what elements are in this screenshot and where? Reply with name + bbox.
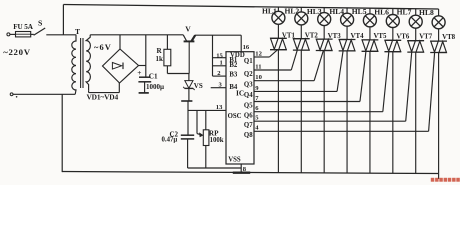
wire VT5 cathode drop [369,51,371,173]
wire secondary bottom [88,91,90,93]
wire HL3-to-VT3 [323,26,325,40]
wire bridge right corner feed [139,65,146,67]
pin 12 Q1 wire [254,56,269,58]
fuse FU [16,32,31,37]
transformer core [80,38,82,88]
svg-text:16: 16 [243,44,250,51]
thyristor VT1 [270,37,287,39]
wire VT1 cathode drop [277,50,279,173]
lamp HL3 [318,13,331,26]
thyristor VT6 [384,39,401,41]
wire topbus-to-HL1 [277,7,279,11]
svg-text:VT6: VT6 [396,33,410,40]
svg-text:VSS: VSS [228,156,241,163]
svg-text:S: S [38,19,42,28]
wire OSC line [188,109,226,111]
pin 4 Q8 wire [254,130,429,132]
transistor V [183,35,186,41]
wire HL4-to-VT4 [346,26,348,39]
terminal AC neutral [10,93,13,96]
svg-text:15: 15 [216,52,223,59]
svg-text:Q5: Q5 [244,102,253,109]
wire topbus-to-HL6 [392,8,394,14]
wire zener to C2 [187,101,189,135]
diode VD inside bridge [112,63,121,70]
svg-text:VT5: VT5 [373,33,387,40]
pin 15 B1 wire [213,57,227,59]
pin 11 Q2 wire [254,69,291,71]
wire Q8 gate diagonal [429,53,435,132]
pin 10 Q3 wire [254,80,314,82]
IC box [226,52,254,164]
zener bottom junction bar [181,100,192,102]
svg-text:Q1: Q1 [244,58,253,65]
lamp HL4 [341,13,354,26]
thyristor VT4 [339,39,356,41]
wire topbus-to-HL4 [346,8,348,13]
svg-text:FU 5A: FU 5A [13,23,34,31]
svg-text:HL5: HL5 [352,7,367,16]
wire HL5-to-VT5 [369,27,371,40]
transformer T primary winding [72,35,76,95]
svg-text:+: + [137,68,141,77]
svg-text:11: 11 [255,63,261,70]
ground bar [233,172,250,174]
svg-text:Q8: Q8 [244,132,253,139]
wire neutral horizontal [13,93,75,95]
svg-text:6: 6 [255,105,259,112]
capacitor C2 [181,134,194,136]
pin 9 Q4 wire [254,90,337,92]
wire terminal-to-fuse [10,33,16,35]
wire 6V node horizontal [90,34,183,36]
svg-text:OSC: OSC [228,113,242,120]
resistor R body [164,49,171,66]
svg-text:V: V [185,25,191,34]
wire Q7 gate diagonal [406,52,412,121]
lamp HL1 [272,11,285,24]
wire bridge bottom drop [118,83,120,93]
wire Q2 gate diagonal [291,50,297,70]
svg-text:100k: 100k [210,137,224,144]
wire Q1 gate diagonal [269,50,277,57]
wire C2 to ground line [187,139,189,168]
wire B-strap riser [212,35,214,76]
wire top bus (AC live to lamps) [63,5,438,10]
svg-text:12: 12 [255,50,262,57]
svg-text:VD1~VD4: VD1~VD4 [87,92,119,101]
wire VT2 cathode drop [300,50,302,173]
wire neutral drop to bottom bus [61,94,63,172]
thyristor VT8 [430,40,447,42]
wire topbus-to-HL3 [323,8,325,13]
svg-text:10: 10 [255,74,262,81]
wire HL6-to-VT6 [392,28,394,41]
wire Q3 gate diagonal [314,51,323,81]
thyristor VT3 [316,38,333,40]
wire VT3 cathode drop [323,51,325,173]
svg-text:B2: B2 [229,62,238,69]
wire ground tie [188,167,242,169]
svg-text:Q7: Q7 [244,122,253,129]
svg-text:B4: B4 [229,84,238,91]
wire VT6 cathode drop [392,52,394,174]
svg-text:9: 9 [255,85,259,92]
svg-text:~6V: ~6V [94,43,112,52]
wire topbus-to-HL2 [300,7,302,12]
lamp HL7 [409,15,422,28]
svg-text:~220V: ~220V [3,47,31,57]
wire VT8 cathode drop [438,53,440,180]
capacitor C1 lower lead and bar [144,82,146,93]
svg-text:T: T [75,27,80,36]
wire Q5 gate diagonal [360,51,366,101]
wire HL8-to-VT8 [438,29,440,41]
pin 2 B3 wire [213,75,227,77]
switch S blade [34,28,46,35]
svg-text:VT7: VT7 [419,34,433,41]
svg-text:5: 5 [255,115,259,122]
pin 7 Q5 wire [254,101,360,103]
lamp HL8 [432,16,445,29]
potentiometer RP leads [205,110,207,129]
wire Q6 gate diagonal [383,52,389,112]
transformer T secondary winding [86,35,90,91]
terminal AC live [7,33,10,36]
lamp HL5 [363,14,376,27]
svg-text:1: 1 [220,60,223,67]
lamp HL6 [386,15,399,28]
wire HL7-to-VT7 [415,28,417,41]
svg-text:0.47µ: 0.47µ [162,137,178,144]
wire VT4 cathode drop [346,51,348,173]
svg-text:HL7: HL7 [397,8,412,17]
wire Q4 gate diagonal [337,51,343,92]
svg-text:Q6: Q6 [244,113,253,120]
wire VT7 cathode drop [415,52,417,173]
svg-text:C1: C1 [149,72,158,80]
svg-text:4: 4 [255,125,259,132]
svg-text:Q3: Q3 [244,82,253,89]
pin 5 Q7 wire [254,120,406,122]
zener VS [188,74,190,81]
wire topbus-to-HL8 [438,9,440,16]
svg-text:HL8: HL8 [419,8,434,17]
svg-text:VS: VS [194,82,203,90]
svg-text:7: 7 [255,95,259,102]
svg-text:VT8: VT8 [442,34,456,41]
wire bridge apex riser [119,35,121,49]
switch S contact wire [31,33,34,35]
wire emitter to IC [195,34,241,36]
pin 8 VSS wire [240,164,242,173]
bridge rectifier VD1-VD4 diamond [103,49,139,83]
svg-text:Q2: Q2 [244,71,253,78]
svg-text:HL6: HL6 [374,7,389,16]
svg-text:R: R [157,47,163,55]
capacitor C1 plates [139,76,151,78]
resistor R leads [166,35,168,50]
wire switch-to-topbus riser [62,5,64,35]
wire bottom bus [62,172,438,174]
potentiometer RP wiper [196,110,198,133]
wire topbus-to-HL7 [415,9,417,15]
svg-text:B3: B3 [229,72,238,79]
pin 3 B4 stub [211,87,226,89]
wire HL1-to-VT1 [277,24,279,38]
svg-text:1k: 1k [156,55,164,63]
svg-text:13: 13 [216,104,223,111]
pin 6 Q6 wire [254,111,383,113]
pin 1 B2 wire [213,65,227,67]
svg-text:1000µ: 1000µ [146,83,164,91]
lamp HL2 [295,12,308,25]
potentiometer RP body [203,130,209,146]
wire R-base-zener node [167,73,189,75]
watermark red text blocks [431,178,435,182]
pin 16 VDD wire [240,35,242,52]
wire topbus-to-HL5 [369,8,371,14]
thyristor VT7 [407,40,424,42]
thyristor VT5 [362,39,379,41]
svg-text:Q4: Q4 [244,92,253,99]
thyristor VT2 [293,38,310,40]
wire HL2-to-VT2 [300,25,302,39]
